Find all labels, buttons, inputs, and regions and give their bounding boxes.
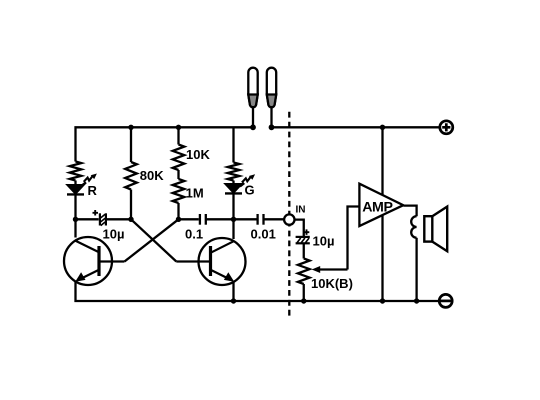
svg-text:AMP: AMP: [362, 200, 392, 216]
wire right branch upper: [232, 127, 234, 162]
wire 80K branch upper: [130, 127, 132, 162]
probe P1: [248, 68, 257, 108]
node probe P1 junction: [250, 124, 256, 130]
node bottom rail pot: [301, 298, 306, 303]
probe P2: [267, 68, 276, 108]
svg-text:10K: 10K: [186, 147, 210, 162]
wire AMP supply vertical: [381, 127, 383, 301]
svg-text:10µ: 10µ: [313, 233, 335, 248]
svg-text:10K(B): 10K(B): [311, 276, 353, 291]
wire cross-couple Q1 base to node C: [125, 219, 179, 261]
potentiometer wiper arrow: [312, 266, 348, 273]
wire resistor to LED R: [74, 181, 76, 186]
wire resistor to LED G: [232, 181, 234, 185]
wire node C to cap 0.1: [179, 218, 199, 220]
speaker LS1: [424, 207, 447, 252]
speaker voice coil: [411, 216, 416, 238]
node A: [73, 217, 78, 222]
node probe P2 junction: [269, 124, 275, 130]
wire wiper to AMP input: [348, 207, 360, 270]
resistor 10K: [173, 145, 185, 171]
svg-text:0.01: 0.01: [251, 226, 276, 241]
wire Q1 emitter to bottom rail and bottom rail: [76, 282, 440, 302]
terminal battery positive: [440, 121, 453, 134]
wire LED G to node D: [232, 193, 234, 239]
wire cap 0.01 to IN node: [264, 218, 285, 220]
wire cap 0.1 to node D: [206, 218, 234, 220]
wire mid branch upper: [177, 127, 179, 144]
svg-text:1M: 1M: [186, 186, 204, 201]
node bottom rail AMP: [380, 298, 385, 303]
wire IN to cap 10u (amp input): [295, 220, 304, 237]
resistor (series with LED R): [70, 162, 82, 181]
capacitor C4 10u electrolytic vertical: [296, 237, 310, 243]
op-amp U1 AMP triangle: [359, 184, 403, 226]
wire top rail left segment: [76, 127, 254, 161]
wire AMP output to coil: [404, 206, 417, 217]
node D: [231, 217, 236, 222]
potentiometer 10K(B): [298, 259, 310, 285]
wire cross-couple Q2 base to node B: [131, 219, 176, 261]
wire coil to bottom rail: [415, 238, 417, 301]
plus sign C1: [93, 210, 99, 216]
wire top rail right segment: [272, 126, 440, 128]
wire node A to cap 10u: [76, 218, 99, 220]
resistor 80K: [125, 162, 137, 190]
wire cap C4 to potentiometer: [303, 244, 305, 259]
wire pot bottom to bottom rail: [303, 284, 305, 301]
wire 80K to node B: [130, 190, 132, 220]
wire 10K to 1M: [177, 170, 179, 179]
svg-text:80K: 80K: [140, 168, 164, 183]
node B: [128, 217, 133, 222]
node bottom rail Q2: [231, 298, 236, 303]
dashed boundary line: [288, 112, 290, 316]
svg-text:10µ: 10µ: [103, 226, 125, 241]
svg-text:IN: IN: [296, 205, 306, 216]
capacitor C3 0.01: [258, 214, 264, 225]
LED R: [67, 174, 97, 195]
transistor Q2: [176, 238, 245, 285]
wire cap 10u to node B: [106, 218, 131, 220]
node C: [176, 217, 181, 222]
svg-text:G: G: [245, 183, 255, 198]
wire probe P1 lead: [252, 108, 254, 128]
svg-text:0.1: 0.1: [185, 226, 203, 241]
svg-text:R: R: [88, 183, 98, 198]
node top rail 80K: [128, 125, 133, 130]
plus sign C4: [304, 229, 310, 235]
capacitor C2 0.1: [200, 214, 206, 225]
LED G: [225, 174, 255, 193]
wire Q2 emitter to bottom rail: [232, 282, 234, 302]
resistor (series with LED G): [228, 163, 240, 181]
wire 1M to node C: [177, 203, 179, 219]
node top rail AMP supply: [380, 125, 385, 130]
node top rail 10K: [176, 125, 181, 130]
terminal battery negative: [439, 294, 452, 307]
wire node D to cap 0.01: [234, 218, 257, 220]
wire LED R to node A: [74, 194, 76, 237]
resistor 1M: [173, 179, 185, 203]
wire probe P2 lead: [270, 108, 272, 128]
capacitor C1 10u electrolytic: [100, 213, 106, 225]
node bottom rail speaker: [414, 298, 419, 303]
node IN terminal: [284, 214, 294, 224]
transistor Q1: [64, 237, 125, 285]
